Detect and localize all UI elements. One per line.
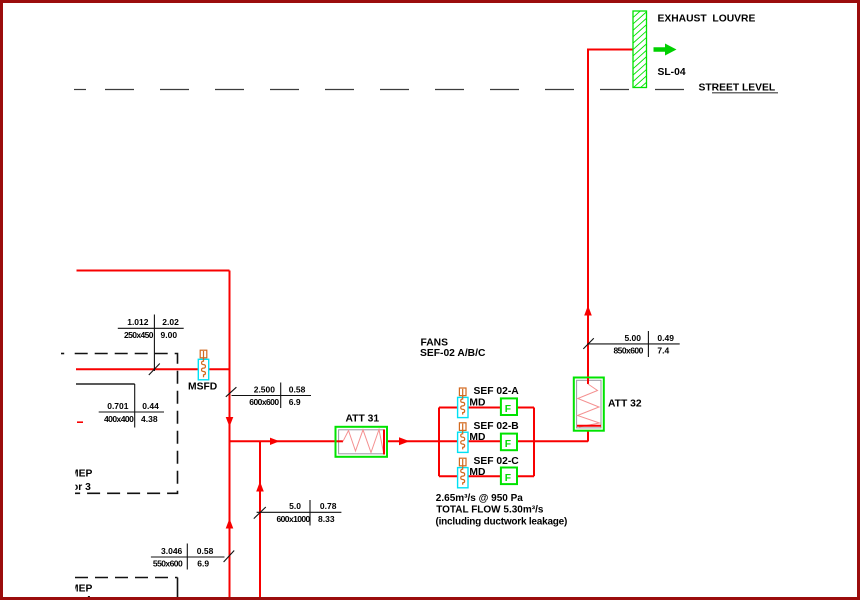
fan SEF 02-A: [501, 398, 517, 415]
fan SEF 02-B: [501, 434, 517, 451]
room label MEP level 3 (clipped): [57, 469, 93, 493]
svg-text:850x600: 850x600: [614, 346, 644, 356]
svg-text:MEP: MEP: [70, 469, 92, 480]
svg-text:600x1000: 600x1000: [277, 514, 311, 524]
wire: fan parallel left header x=439: [438, 408, 440, 477]
svg-text:STREET LEVEL: STREET LEVEL: [699, 82, 776, 93]
wire: vertical duct x=229.5: [229, 271, 231, 600]
svg-text:MEP: MEP: [70, 583, 92, 594]
wire: top-left duct y=270.5: [77, 270, 230, 272]
svg-text:SL-04: SL-04: [658, 67, 686, 78]
svg-text:6.9: 6.9: [289, 397, 301, 407]
svg-text:TOTAL FLOW 5.30m³/s: TOTAL FLOW 5.30m³/s: [436, 505, 544, 516]
svg-text:400x400: 400x400: [104, 414, 134, 424]
dimension callout 5.0/600x1000: [254, 500, 342, 526]
svg-text:5.0: 5.0: [289, 501, 301, 511]
label SEF 02-B: [474, 421, 519, 432]
flow arrow down on x=229.5: [226, 417, 234, 427]
svg-text:SEF 02-B: SEF 02-B: [474, 421, 519, 432]
svg-text:1.012: 1.012: [127, 317, 149, 327]
label ATT 31: [346, 413, 380, 424]
svg-text:8.33: 8.33: [318, 514, 335, 524]
label STREET LEVEL: [699, 82, 776, 93]
exhaust louvre SL-04: [633, 5, 648, 95]
svg-text:9.00: 9.00: [161, 330, 178, 340]
svg-text:MD: MD: [469, 397, 485, 408]
wire: fan branch A y=407.5: [439, 407, 534, 409]
room label MEP lower (clipped): [57, 583, 93, 600]
svg-text:6.9: 6.9: [197, 559, 209, 569]
svg-text:600x600: 600x600: [249, 397, 279, 407]
svg-text:550x600: 550x600: [153, 559, 183, 569]
svg-text:2.500: 2.500: [254, 384, 276, 394]
dimension callout 2.500/600x600: [226, 383, 311, 409]
svg-text:ATT 32: ATT 32: [608, 399, 642, 410]
svg-text:7.4: 7.4: [657, 346, 669, 356]
wire: vertical duct x=260: [259, 441, 261, 600]
svg-text:2.02: 2.02: [162, 317, 179, 327]
wire: MSFD branch duct y=369.3: [76, 368, 230, 370]
room outline MEP lower (dashed): [75, 578, 178, 600]
svg-text:(including ductwork leakage): (including ductwork leakage): [436, 516, 568, 527]
label EXHAUST LOUVRE: [658, 13, 756, 24]
label MD A: [469, 397, 485, 408]
fan SEF 02-C: [501, 468, 517, 485]
label MD C: [469, 467, 485, 478]
svg-text:250x450: 250x450: [124, 330, 154, 340]
label SEF 02-A: [474, 386, 520, 397]
flow arrow right after ATT 31: [399, 437, 410, 445]
svg-text:MD: MD: [469, 432, 485, 443]
attenuator ATT 31: [336, 427, 388, 457]
label SEF 02-C: [474, 456, 520, 467]
svg-text:0.58: 0.58: [289, 384, 306, 394]
wire: fan branch C y=476.2: [439, 475, 534, 477]
label SL-04: [658, 67, 686, 78]
svg-text:Floor 3: Floor 3: [57, 482, 92, 493]
svg-text:0.78: 0.78: [320, 501, 337, 511]
svg-text:SEF 02-C: SEF 02-C: [474, 456, 520, 467]
flow arrow up on riser x=588: [584, 306, 592, 316]
flow arrow up on x=260: [256, 482, 264, 492]
label FANS: [421, 337, 449, 348]
dimension callout 3.046/550x600: [151, 544, 234, 570]
svg-text:MD: MD: [469, 467, 485, 478]
svg-text:0.49: 0.49: [657, 333, 674, 343]
svg-text:0.58: 0.58: [197, 546, 214, 556]
exhaust air flow arrow (green): [654, 44, 677, 56]
flow arrow up on x=229.5 lower: [226, 519, 234, 529]
svg-text:0.44: 0.44: [142, 401, 159, 411]
svg-text:5.00: 5.00: [624, 333, 641, 343]
damper MD-B with actuator: [458, 423, 468, 453]
attenuator ATT 32: [574, 378, 604, 431]
wire: riser duct from fans to louvre (x=588): [588, 50, 633, 442]
dimension callout 1.012/250x450: [118, 315, 184, 376]
damper MSFD (fire/smoke damper): [198, 350, 208, 380]
svg-text:SEF-02 A/B/C: SEF-02 A/B/C: [420, 348, 486, 359]
svg-text:FANS: FANS: [421, 337, 449, 348]
svg-text:ATT 31: ATT 31: [346, 413, 380, 424]
dimension callout 5.00/850x600: [583, 331, 679, 357]
damper MD-C with actuator: [458, 458, 468, 488]
svg-text:0.701: 0.701: [107, 401, 129, 411]
svg-text:2.65m³/s @ 950 Pa: 2.65m³/s @ 950 Pa: [436, 493, 523, 504]
wire: main horizontal duct y=441.3: [230, 440, 589, 442]
svg-text:F: F: [505, 439, 511, 450]
wire: fan parallel right header x=534: [533, 408, 535, 477]
label MSFD: [188, 382, 217, 393]
svg-text:MSFD: MSFD: [188, 382, 217, 393]
label SEF-02 A/B/C: [420, 348, 486, 359]
red stub mark left: [77, 421, 83, 423]
svg-text:SEF 02-A: SEF 02-A: [474, 386, 520, 397]
note fan duty text: [436, 493, 568, 528]
flow arrow right at x=272: [270, 438, 280, 445]
black duct outline top-left: [76, 383, 135, 385]
svg-text:F: F: [505, 404, 511, 415]
svg-text:EXHAUST LOUVRE: EXHAUST LOUVRE: [658, 13, 756, 24]
label ATT 32: [608, 399, 642, 410]
svg-text:F: F: [505, 473, 511, 484]
room outline MEP level 3 (dashed): [61, 354, 178, 494]
svg-text:3.046: 3.046: [161, 546, 183, 556]
svg-text:4.38: 4.38: [141, 414, 158, 424]
label MD B: [469, 432, 485, 443]
street level dashed line: [74, 90, 778, 93]
damper MD-A with actuator: [458, 388, 468, 418]
dimension callout 0.701/400x400: [99, 384, 164, 428]
